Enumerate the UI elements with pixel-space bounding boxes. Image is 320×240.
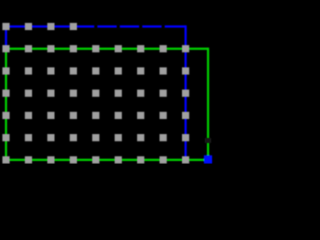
wire W1 blue net: top horizontal segment — [5, 25, 186, 27]
node N1: selected blue corner junction handle — [204, 155, 212, 163]
wire W2 green net: right vertical segment — [207, 48, 209, 160]
wire W2 green net: left vertical segment — [5, 49, 7, 161]
wire W1 blue net: left vertical link segment — [5, 27, 7, 49]
wire W2 green net: bottom horizontal segment — [5, 159, 208, 161]
wire W2 green net: top horizontal segment — [5, 48, 208, 50]
wire W1 blue net: right vertical segment — [185, 25, 187, 160]
